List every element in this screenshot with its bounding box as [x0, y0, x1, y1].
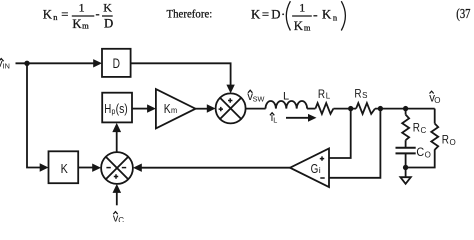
svg-text:R: R: [413, 121, 420, 135]
svg-text:SW: SW: [253, 95, 265, 104]
svg-text:G: G: [311, 161, 319, 176]
fraction bar K/D: [102, 15, 113, 17]
svg-text:S: S: [362, 91, 367, 100]
svg-text:m: m: [171, 105, 177, 115]
svg-text:K: K: [43, 7, 53, 21]
svg-text:K: K: [251, 7, 261, 21]
wire RL to node: [333, 108, 356, 110]
arrowhead into sum2 right: [133, 164, 142, 172]
arrowhead of iL arrow: [308, 114, 317, 122]
fraction bar 1/Km eq2: [292, 15, 312, 17]
wire RS to RO corner: [375, 108, 435, 110]
wire CO to ground node: [405, 153, 407, 167]
svg-text:O: O: [450, 138, 456, 147]
wire sum2 up to Hp: [116, 130, 118, 153]
wire vIN node down to K row: [27, 63, 40, 167]
svg-text:K: K: [72, 17, 82, 31]
svg-text:D: D: [113, 56, 121, 71]
svg-text:1: 1: [299, 0, 305, 14]
equation Kn = 1/Km - K/D: [43, 0, 113, 31]
svg-text:Therefore:: Therefore:: [167, 8, 213, 21]
sum2 cross X: [106, 157, 128, 179]
summing junction 2 circle: [101, 152, 133, 184]
svg-text:R: R: [354, 86, 361, 100]
Gi minus sign: [320, 177, 324, 179]
label RS: [354, 86, 367, 100]
svg-text:C: C: [421, 126, 427, 135]
fraction bar 1/Km: [72, 15, 95, 17]
sum1 cross X: [220, 98, 241, 119]
wire inductor to RL: [307, 108, 315, 110]
hat over iL: [270, 113, 274, 116]
sum2 minus left: [106, 167, 110, 169]
svg-text:=: =: [262, 7, 269, 21]
svg-text:K: K: [322, 7, 332, 21]
svg-text:m: m: [304, 22, 311, 32]
arrowhead into sum1 top: [226, 85, 234, 94]
svg-text:K: K: [294, 19, 304, 33]
label Km: [164, 101, 177, 116]
arrowhead into Km: [147, 104, 156, 112]
wire node to RC: [405, 109, 407, 115]
block Hp(s): [102, 93, 132, 123]
label RL: [318, 87, 331, 101]
block K: [49, 151, 79, 183]
wire RO branch down: [434, 109, 436, 124]
label vO: [429, 92, 440, 105]
summing junction 1 circle: [216, 93, 246, 123]
resistor RO vertical zigzag: [431, 124, 438, 150]
label vIN: [0, 58, 10, 71]
hat over vSW: [248, 90, 252, 93]
label iL: [271, 112, 278, 124]
arrowhead into sum2 bottom: [113, 184, 122, 193]
svg-text:n: n: [333, 12, 338, 22]
arrowhead into sum1 left: [207, 104, 216, 112]
block D: [102, 49, 131, 77]
svg-text:i: i: [319, 165, 321, 175]
sum1 plus top: [228, 98, 232, 102]
capacitor CO: [396, 148, 416, 154]
svg-text:n: n: [53, 12, 58, 22]
svg-text:1: 1: [79, 0, 85, 14]
sum1 plus left: [219, 107, 223, 111]
svg-text:O: O: [425, 150, 431, 159]
wire K to sum2: [78, 167, 93, 169]
svg-text:C: C: [416, 145, 424, 159]
wire sum1 to inductor: [246, 108, 266, 110]
svg-text:O: O: [434, 96, 440, 105]
svg-text:R: R: [318, 87, 325, 101]
hat over vO: [430, 91, 434, 93]
svg-text:R: R: [442, 133, 449, 147]
Gi plus sign: [320, 156, 324, 160]
node at RC branch: [403, 106, 408, 111]
label vC: [113, 212, 124, 225]
wire RC to CO: [405, 140, 407, 147]
sum2 plus bottom: [114, 174, 118, 178]
wire node RS down to Gi minus input: [329, 109, 380, 178]
current arrow iL: [286, 117, 309, 119]
node ground junction: [403, 165, 408, 170]
svg-text:H: H: [104, 102, 111, 116]
arrowhead into sum2 left: [92, 164, 101, 172]
hat over vC: [113, 212, 117, 215]
label RO: [442, 133, 456, 148]
ground: [405, 168, 407, 178]
svg-text:K: K: [61, 161, 69, 176]
svg-text:·: ·: [281, 7, 285, 21]
node after RS: [378, 106, 383, 111]
svg-text:L: L: [326, 92, 331, 101]
hat over vIN: [0, 59, 4, 62]
label Gi: [311, 161, 321, 176]
resistor RS zigzag: [356, 103, 375, 114]
node after RL: [348, 106, 353, 111]
wire Hp to Km: [132, 108, 148, 110]
label Hp(s): [104, 102, 128, 116]
equation K = D(1/Km - Kn): [251, 0, 338, 33]
node vIN junction: [24, 61, 29, 66]
svg-text:(37: (37: [456, 6, 470, 21]
sum2 minus right: [122, 167, 126, 169]
svg-text:D: D: [271, 7, 280, 21]
svg-text:K: K: [164, 101, 171, 116]
svg-text:IN: IN: [3, 62, 10, 71]
wire RO to bottom rail: [406, 150, 435, 168]
svg-text:m: m: [82, 21, 89, 31]
op-amp Km triangle: [156, 89, 196, 128]
svg-text:K: K: [103, 0, 112, 14]
svg-text:L: L: [273, 115, 277, 124]
svg-text:=: =: [61, 7, 68, 21]
label CO: [416, 145, 430, 160]
wire D to summing junction 1: [131, 63, 231, 85]
arrowhead into D: [93, 59, 102, 67]
left parenthesis eq2: [286, 1, 290, 30]
svg-text:L: L: [283, 91, 289, 103]
resistor RC vertical zigzag: [402, 115, 409, 141]
label vSW: [247, 91, 264, 104]
minus sign eq2: [313, 15, 317, 17]
arrowhead into Hp bottom: [112, 123, 121, 132]
wire Km to sum1: [196, 108, 208, 110]
right parenthesis eq2: [341, 1, 345, 30]
svg-text:D: D: [104, 17, 113, 31]
svg-text:(s): (s): [116, 102, 128, 116]
wire vC up to sum2: [116, 192, 118, 206]
op-amp Gi triangle: [290, 149, 329, 188]
minus sign eq1: [96, 14, 100, 16]
wire Gi output to sum2: [142, 167, 291, 169]
svg-text:C: C: [118, 216, 124, 222]
wire vIN to D: [16, 62, 95, 64]
arrowhead into K: [40, 163, 49, 171]
resistor RL zigzag: [315, 103, 333, 114]
label RC: [413, 121, 427, 136]
wire node RL down to Gi plus input: [329, 109, 351, 158]
inductor L coil: [266, 101, 308, 109]
